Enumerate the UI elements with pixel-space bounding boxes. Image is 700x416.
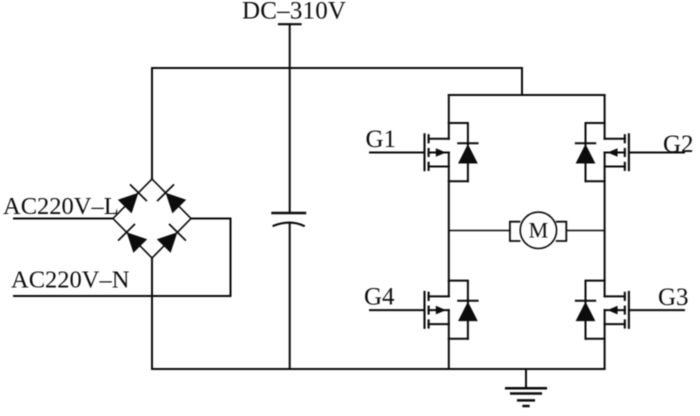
terminal bar under DC-310V label bbox=[279, 23, 301, 25]
wire: G4 gate lead bbox=[370, 309, 424, 311]
wire: left leg bottom segment (Q4 source to bottom rail) bbox=[448, 310, 450, 369]
bridge rectifier edge B-R bbox=[152, 219, 191, 259]
svg-text:AC220V–L: AC220V–L bbox=[3, 193, 119, 220]
wire: motor right brush to right leg bbox=[566, 230, 604, 232]
svg-text:G1: G1 bbox=[366, 126, 397, 153]
bridge rectifier edge L-T bbox=[113, 179, 152, 219]
svg-text:G3: G3 bbox=[658, 284, 689, 311]
wire: AC N lead to bridge right corner bbox=[14, 219, 231, 297]
wire: bridge bottom corner to bottom rail bbox=[151, 258, 153, 369]
wire: left leg to motor left brush bbox=[449, 230, 510, 232]
motor left brush bracket bbox=[510, 222, 520, 241]
wire: AC L lead to bridge left corner bbox=[14, 218, 113, 220]
bridge rectifier edge L-B bbox=[113, 219, 152, 259]
capacitor C top plate bbox=[273, 212, 306, 214]
bridge rectifier edge T-R bbox=[152, 179, 191, 219]
wire: left leg mid segment (Q1 source to Q4 drain, motor tap) bbox=[448, 153, 450, 297]
MOSFET Q3 (gate G3, bottom-right) bbox=[605, 292, 629, 328]
wire: top DC rail bbox=[152, 67, 522, 69]
MOSFET Q2 (gate G2, top-right) bbox=[605, 134, 629, 170]
bridge diode D1 (left corner to top corner) bbox=[118, 185, 147, 213]
svg-text:DC–310V: DC–310V bbox=[242, 0, 346, 25]
svg-text:G2: G2 bbox=[663, 131, 694, 158]
wire: DC bus vertical (label to capacitor) bbox=[289, 24, 291, 213]
wire: rail drop to H-bridge top bbox=[521, 68, 523, 95]
capacitor C bottom curved plate bbox=[274, 223, 304, 226]
ground bar 1 bbox=[506, 387, 546, 390]
ground bar 4 bbox=[524, 405, 529, 408]
bridge diode D3 (bottom corner to left corner) bbox=[119, 225, 148, 253]
wire: H-bridge top rail bbox=[449, 94, 605, 96]
MOSFET Q4 (gate G4, bottom-left) bbox=[425, 292, 449, 328]
wire: left leg drain segment (top rail to Q1) bbox=[448, 95, 450, 139]
wire: G3 gate lead bbox=[630, 309, 684, 311]
body diode of Q3 bbox=[576, 281, 605, 339]
svg-text:G4: G4 bbox=[364, 283, 395, 310]
ground stem bbox=[525, 369, 527, 388]
MOSFET Q1 (gate G1, top-left) bbox=[425, 134, 449, 170]
wire: bottom ground rail bbox=[152, 368, 605, 370]
svg-text:AC220V–N: AC220V–N bbox=[11, 267, 130, 294]
motor right brush bracket bbox=[557, 222, 567, 241]
wire: right leg drain segment (top rail to Q2) bbox=[604, 95, 606, 139]
body diode of Q1 bbox=[449, 123, 478, 181]
wire: right leg mid segment (Q2 source to Q3 drain, motor tap) bbox=[604, 153, 606, 297]
wire: rail down to bridge rectifier top corner bbox=[151, 68, 153, 179]
wire: right leg bottom segment (Q3 source to bottom rail) bbox=[604, 310, 606, 369]
wire: G2 gate lead bbox=[630, 152, 684, 154]
wire: G1 gate lead bbox=[370, 152, 424, 154]
svg-text:M: M bbox=[529, 218, 549, 243]
ground bar 3 bbox=[518, 399, 534, 402]
body diode of Q4 bbox=[449, 281, 478, 339]
wire: capacitor to bottom rail bbox=[289, 223, 291, 369]
bridge diode D4 (bottom corner to right corner) bbox=[157, 225, 186, 253]
body diode of Q2 bbox=[576, 123, 605, 181]
bridge diode D2 (right corner to top corner) bbox=[158, 185, 187, 213]
ground bar 2 bbox=[511, 392, 541, 395]
motor M circle bbox=[520, 212, 556, 248]
